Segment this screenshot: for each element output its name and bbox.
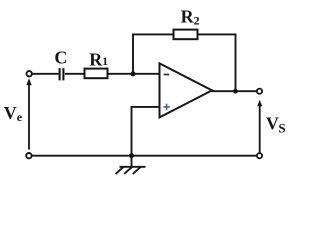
wire: non-inverting branch down to ground rail [131,107,133,156]
wire: input terminal to capacitor [32,73,58,75]
svg-text:C: C [54,48,67,68]
wire: feedback down to output node [235,34,237,92]
wire: junction up to feedback branch [132,34,134,74]
node B (junction dot at output/feedback) [233,89,238,94]
wire: op-amp output to terminal [211,90,257,92]
Vs arrow (pointing up) [257,100,262,153]
op-amp plus input sign [163,104,169,110]
wire: R1 to op-amp inverting input [108,73,160,75]
wire: capacitor to R1 [65,73,85,75]
resistor R1 [85,69,108,79]
wire: non-inverting input to left [131,106,160,108]
wire: bottom rail [32,155,257,157]
node C (junction dot at ground tap) [129,153,134,158]
node A (junction dot on inverting input line) [131,71,136,76]
op-amp U1 [160,63,213,117]
resistor R2 [174,30,198,40]
bottom terminal right (open circle) [257,153,262,158]
Ve arrow (pointing up) [26,78,31,149]
capacitor C [60,68,64,80]
input terminal (open circle, top-left) [27,71,32,76]
output terminal (open circle, right) [257,89,262,94]
bottom terminal left (open circle) [26,153,31,158]
wire: R2 to right feedback corner [198,33,237,35]
wire: feedback top-left horizontal to R2 [132,33,173,35]
op-amp minus input sign [164,74,170,76]
ground [116,156,146,174]
